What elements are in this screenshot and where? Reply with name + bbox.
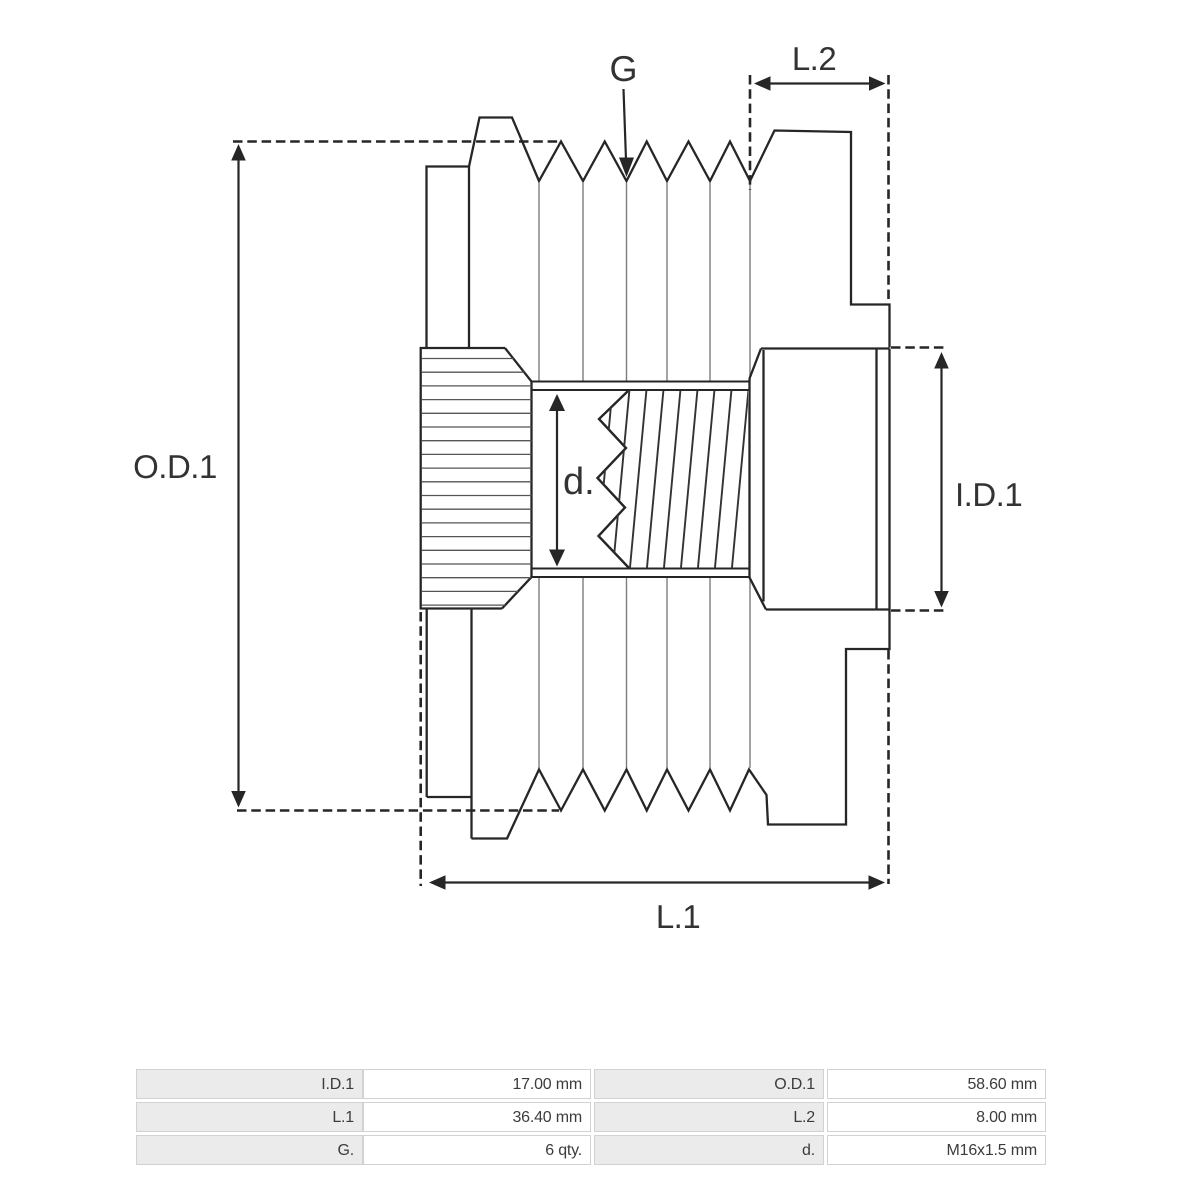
rib groove lines (bottom) (539, 578, 750, 769)
svg-text:L.1: L.1 (656, 898, 700, 935)
pulley bottom profile with V-rib grooves (472, 610, 890, 839)
dimension L.2 (754, 76, 886, 91)
svg-text:O.D.1: O.D.1 (133, 448, 217, 485)
thread break zigzag line (598, 391, 630, 568)
L.1 extension line left (419, 612, 422, 886)
svg-text:I.D.1: I.D.1 (955, 476, 1022, 513)
parameter table (136, 1069, 363, 1099)
I.D.1 extension line bottom (891, 609, 948, 612)
shaft bore rails (532, 382, 750, 578)
dimension I.D.1 (934, 352, 949, 608)
O.D.1 extension line top (233, 140, 562, 143)
pulley top profile with V-rib grooves (469, 118, 890, 348)
L.1 extension line right (887, 650, 890, 884)
thread hatching (595, 384, 766, 576)
hub nut hatching (422, 359, 532, 606)
I.D.1 extension line top (891, 346, 948, 349)
svg-text:d.: d. (563, 461, 595, 503)
hub nut block outline (421, 348, 532, 609)
dimension L.1 (429, 875, 885, 890)
pulley rear flange (top-left) (427, 167, 470, 348)
rib groove lines (top) (539, 183, 750, 381)
O.D.1 extension line bottom (237, 809, 559, 812)
dimension d. (549, 394, 565, 567)
leader arrow G (619, 89, 634, 177)
dimension O.D.1 (231, 144, 246, 808)
L.2 extension line right (887, 75, 890, 305)
front collar boss (750, 349, 890, 610)
L.2 extension line left (749, 75, 752, 190)
svg-text:L.2: L.2 (792, 40, 836, 77)
pulley rear flange (bottom-left) (427, 609, 472, 839)
svg-text:G: G (609, 48, 637, 89)
